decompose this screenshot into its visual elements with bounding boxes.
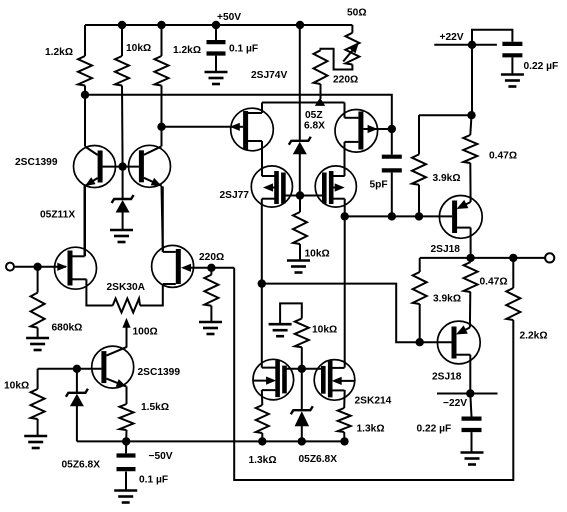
- wire: U1a source down: [261, 141, 263, 176]
- label 50&#937; (trimmer): [347, 8, 367, 19]
- junction on +50V rail at zener column: [296, 21, 304, 29]
- wire: Q4b source column down: [344, 199, 346, 368]
- junction drive node (left): [258, 279, 266, 287]
- junction -50V / 1.3k right: [340, 437, 348, 445]
- wire: 3.9k upper bottom lead: [418, 185, 420, 217]
- wire: 10k ground lead: [37, 419, 39, 435]
- label 0.1&#181;F (C1): [229, 44, 258, 55]
- trimmer wiper arrow: [343, 43, 359, 62]
- label -22V: [443, 398, 467, 409]
- resistor 0.47 ohm (upper): [463, 135, 477, 163]
- svg-text:0.1 µF: 0.1 µF: [139, 475, 168, 486]
- junction -50V / zener D4: [298, 437, 306, 445]
- wire: C4 ground lead: [471, 432, 473, 451]
- wire: 0.47 lower top lead: [470, 258, 472, 262]
- MOSFET Q4a 2SJ77 (left): [251, 166, 292, 207]
- wire: 0.47 lower to Q8 emitter: [469, 292, 471, 328]
- wire: bases to zener D1: [122, 167, 124, 199]
- svg-text:0.22 µF: 0.22 µF: [417, 424, 452, 435]
- resistor 3.9k (upper): [412, 154, 426, 184]
- junction 10k / zener / Q5 base: [73, 365, 81, 373]
- MOSFET Q4b 2SJ77 (right): [315, 166, 356, 207]
- wire: Q4a source column down: [261, 199, 263, 368]
- svg-text:3.9kΩ: 3.9kΩ: [433, 294, 461, 305]
- wire: 2SK214 gate bus: [286, 368, 322, 370]
- wire: 220 ohm to ground: [210, 306, 212, 321]
- gate arrow U1a (P-ch, points out): [230, 123, 243, 131]
- svg-text:2SJ74V: 2SJ74V: [251, 70, 287, 81]
- label 2SJ74V: [251, 70, 287, 81]
- gate arrow U1b (P-ch, points out): [363, 125, 377, 133]
- junction 2SK214 gates: [298, 365, 306, 373]
- wire: Q6a source lead down: [261, 390, 264, 405]
- wire: 10k top lead: [37, 369, 39, 389]
- label 6.8X (D2) line2: [304, 121, 325, 132]
- gate arrow Q3a (N-ch, points in): [57, 263, 67, 271]
- capacitor C4 0.22uF (lower): [462, 419, 482, 430]
- ground below 10k lower-left: [24, 436, 47, 448]
- label 05Z6.8X (D3): [62, 460, 101, 471]
- wire: cascode rail (y=95): [85, 95, 392, 129]
- tap arrow into 100 ohm: [122, 318, 130, 347]
- svg-text:1.2kΩ: 1.2kΩ: [45, 47, 73, 58]
- wire: 3.9k lower bottom lead: [419, 304, 421, 342]
- junction bases / R2 column: [118, 162, 126, 170]
- wire: Q3a source lead: [86, 279, 112, 305]
- trimmer VR1 50 ohm: [345, 33, 359, 65]
- label 680k&#937;: [52, 323, 83, 334]
- resistor 0.47 ohm (lower): [464, 262, 478, 292]
- wire: Q2 emitter column: [162, 186, 163, 252]
- label 05Z11X: [40, 210, 75, 221]
- MOSFET Q6b 2SK214 (right): [314, 360, 355, 401]
- wire: Q7 collector to output line: [470, 228, 472, 258]
- label 0.47&#937; (upper): [489, 151, 517, 162]
- wire: trimmer top lead: [351, 25, 353, 33]
- resistor 3.9k (lower): [413, 272, 427, 304]
- resistor 100 ohm (source degeneration): [113, 299, 140, 313]
- wire: 1.3k right bottom: [343, 432, 345, 441]
- wire: 220 ohm bottom lead: [320, 84, 322, 99]
- wire: R1 top lead: [84, 25, 86, 56]
- svg-text:+50V: +50V: [217, 12, 241, 23]
- label 05Z (D2) line1: [305, 110, 323, 121]
- svg-text:220Ω: 220Ω: [199, 252, 224, 263]
- svg-text:2SJ77: 2SJ77: [220, 190, 250, 201]
- wire: 3.9k upper top link: [419, 114, 472, 116]
- label 0.22&#181;F (C3): [524, 61, 559, 72]
- svg-text:2SC1399: 2SC1399: [15, 157, 58, 168]
- label 2SK30A: [107, 282, 146, 293]
- wire: Q2 collector column: [161, 127, 163, 147]
- wire: input lead: [14, 266, 66, 268]
- transistor Q2 2SC1399 (right): [129, 145, 171, 187]
- resistor 220 ohm (feedback shunt): [204, 275, 218, 306]
- wire: lower drive line: [262, 284, 452, 343]
- junction on +50V rail at 10k R2: [118, 21, 126, 29]
- svg-text:05Z6.8X: 05Z6.8X: [299, 454, 338, 465]
- wire: R1 bottom lead: [84, 86, 86, 95]
- ground below 220 ohm: [199, 322, 222, 334]
- label 10k&#937; (2SK214 bias): [312, 325, 337, 336]
- wire: Q8 collector to -22V: [469, 355, 471, 394]
- ground below D1: [110, 230, 133, 242]
- label 2SC1399 (Q5): [138, 367, 181, 378]
- svg-text:1.3kΩ: 1.3kΩ: [249, 455, 277, 466]
- svg-text:2SK30A: 2SK30A: [107, 282, 146, 293]
- svg-text:2.2kΩ: 2.2kΩ: [520, 331, 548, 342]
- label 1.2k&#937; (R3): [173, 45, 201, 56]
- junction rail2 / R1 / Q1 collector: [81, 91, 89, 99]
- label 10k&#937; (lower-left): [4, 381, 29, 392]
- wire: -50V line: [77, 440, 345, 442]
- wire: R3 top lead: [161, 25, 163, 56]
- label 0.47&#937; (lower): [480, 277, 508, 288]
- wire: C2 ground lead: [125, 472, 127, 490]
- junction on +50V rail at C1: [212, 21, 220, 29]
- resistor 680k: [31, 293, 45, 328]
- wire: trimmer bottom jog to 220 ohm: [321, 49, 353, 70]
- junction 5pF / drive line: [388, 212, 396, 220]
- wire: 5pF top lead: [391, 129, 393, 155]
- capacitor 5pF: [382, 157, 402, 171]
- label 1.3k&#937; (left): [249, 455, 277, 466]
- svg-text:1.3kΩ: 1.3kΩ: [357, 424, 385, 435]
- junction rail2 drop / U1b gate / 5pF: [388, 125, 396, 133]
- svg-text:2SC1399: 2SC1399: [138, 367, 181, 378]
- wire: R3 bottom column: [161, 86, 163, 127]
- junction input / 680k: [33, 263, 41, 271]
- wire: Q6b source lead down: [343, 390, 346, 408]
- svg-text:10kΩ: 10kΩ: [312, 325, 337, 336]
- wire: zener D2 anode to gate bus: [299, 153, 301, 195]
- svg-text:+22V: +22V: [440, 32, 464, 43]
- wire: R2 bottom column to BJT bases: [121, 86, 124, 167]
- ground below C3: [501, 75, 524, 87]
- label 3.9k&#937; (upper): [433, 173, 461, 184]
- resistor 1.3k (left): [256, 405, 269, 433]
- wire: Q5 base line: [77, 368, 102, 370]
- wire: C4 top lead: [470, 394, 471, 417]
- wire: Q1 collector column: [84, 95, 86, 147]
- svg-text:6.8X: 6.8X: [304, 121, 325, 132]
- label 1.3k&#937; (right): [357, 424, 385, 435]
- junction R3 column / U1a gate: [157, 123, 165, 131]
- svg-text:50Ω: 50Ω: [347, 8, 367, 19]
- wire: Q5 collector column to tap arrow: [126, 340, 128, 348]
- wire: 680k top lead: [37, 267, 39, 293]
- wire: C1 top lead: [215, 25, 217, 40]
- wire: base tie line: [103, 166, 139, 168]
- label 220&#937; (feedback): [199, 252, 224, 263]
- ground below 10k bias: [287, 261, 310, 273]
- wire: 680k ground lead: [37, 328, 39, 337]
- wire: Q3b drain column up to Q2 emitter: [162, 187, 164, 252]
- wire: D1 anode to ground: [122, 212, 124, 230]
- wire: gates to 10k bias: [301, 347, 303, 369]
- wire: Q1 emitter column: [84, 186, 86, 256]
- transistor Q7 2SJ18 (upper): [439, 196, 482, 239]
- ground below C2: [114, 491, 137, 503]
- label 2SJ18 (Q8): [432, 372, 462, 383]
- svg-text:−50V: −50V: [149, 451, 173, 462]
- wire: zener D3 top lead: [76, 369, 78, 393]
- label 10k&#937; (R2): [126, 43, 151, 54]
- label 0.1&#181;F (C2): [139, 475, 168, 486]
- label 2SK214: [355, 396, 392, 407]
- junction -22V / Q8 / C4: [466, 389, 474, 397]
- junction 3.9k / drive line: [415, 212, 423, 220]
- capacitor C1 0.1uF: [207, 42, 226, 53]
- wire: 10k bias to ground jog: [280, 303, 302, 323]
- wire: U1b drain to fold line: [344, 103, 346, 118]
- resistor 10k (2SK214 bias): [295, 319, 309, 348]
- wire: Q5 emitter to 1.5k: [126, 387, 128, 405]
- zener D3 05Z6.8X (left): [66, 389, 88, 407]
- ground below 680k: [26, 338, 49, 350]
- wire: zener column from +50V rail: [299, 25, 301, 140]
- wire: -22V rail: [437, 393, 498, 395]
- svg-text:05Z11X: 05Z11X: [40, 210, 75, 221]
- svg-text:3.9kΩ: 3.9kΩ: [433, 173, 461, 184]
- svg-text:05Z: 05Z: [305, 110, 323, 121]
- junction output / Q7 / 0.47 lower: [466, 254, 474, 262]
- wire: 10k to ground: [299, 244, 301, 260]
- junction drive node (right): [341, 212, 349, 220]
- wire: 3.9k upper top lead: [418, 115, 420, 154]
- transistor Q1 2SC1399 (left, mirrored): [74, 146, 116, 188]
- JFET Q3b 2SK30A (right): [152, 245, 194, 287]
- wire: D3 anode to -50V line: [76, 405, 78, 441]
- junction -50V / 1.3k left: [258, 437, 266, 445]
- svg-text:1.5kΩ: 1.5kΩ: [141, 402, 169, 413]
- ground below C4: [461, 453, 484, 465]
- capacitor C2 0.1uF (lower): [117, 456, 136, 470]
- capacitor C3 0.22uF (upper): [502, 44, 522, 55]
- label 5pF: [370, 180, 388, 191]
- svg-text:100Ω: 100Ω: [133, 327, 158, 338]
- label 1.2k&#937; (R1): [45, 47, 73, 58]
- wire: 1.5k bottom lead: [125, 430, 127, 441]
- wire: +22V column down: [471, 45, 473, 115]
- wire: C2 top lead: [125, 441, 127, 453]
- wire: feedback loop: [234, 268, 513, 480]
- wire: 1.3k left bottom: [261, 433, 263, 441]
- JFET U1b 2SJ74V (right): [335, 110, 378, 153]
- label 1.5k&#937;: [141, 402, 169, 413]
- label 100&#937;: [133, 327, 158, 338]
- output terminal: [545, 253, 554, 262]
- resistor 220 ohm (upper): [314, 50, 328, 84]
- label -50V: [149, 451, 173, 462]
- wire: gates to zener D4: [301, 369, 303, 410]
- zener D4 05Z6.8X (center): [291, 406, 313, 426]
- wire: +50V rail: [85, 24, 352, 26]
- svg-text:220Ω: 220Ω: [333, 75, 358, 86]
- MOSFET Q6a 2SK214 (left): [253, 359, 294, 400]
- svg-text:10kΩ: 10kΩ: [4, 381, 29, 392]
- label 2SC1399 (pair): [15, 157, 58, 168]
- resistor 10k (bias lower-left): [31, 389, 45, 419]
- svg-text:2SJ18: 2SJ18: [432, 372, 462, 383]
- resistor 1.3k (right): [338, 408, 351, 432]
- junction 3.9k upper / 0.47 upper: [467, 111, 475, 119]
- zener D1 05Z11X: [112, 195, 134, 213]
- input terminal: [6, 263, 14, 271]
- wire: U1b gate line to rail2 drop: [363, 128, 391, 130]
- resistor R3 1.2k: [155, 56, 169, 86]
- wire: upper drive line (y=216.5): [345, 215, 452, 217]
- resistor 1.5k: [120, 404, 134, 430]
- resistor R2 10k: [115, 56, 129, 86]
- junction on +50V rail at 1.2k R3: [157, 21, 165, 29]
- resistor 2.2k: [506, 288, 520, 320]
- label 0.22&#181;F (C4): [417, 424, 452, 435]
- wire: Q3a drain column up to Q1 emitter: [84, 185, 86, 256]
- wire: Q3b gate line: [189, 267, 235, 269]
- svg-text:2SJ18: 2SJ18: [431, 244, 461, 255]
- gate arrow Q3b (N-ch, points in): [181, 264, 191, 272]
- svg-text:0.1 µF: 0.1 µF: [229, 44, 258, 55]
- wire: 2.2k top lead: [512, 258, 514, 288]
- junction 3.9k lower / base line: [416, 338, 424, 346]
- wire: 0.47 upper top lead: [470, 115, 471, 135]
- wire: fold line (y=102.5): [262, 102, 345, 104]
- label 10k&#937; (2SJ77 bias): [305, 249, 330, 260]
- transistor Q8 2SJ18 (lower): [437, 321, 480, 364]
- wire: D4 anode to -50V: [301, 426, 303, 442]
- wire: +22V rail: [434, 44, 497, 46]
- svg-text:5pF: 5pF: [370, 180, 388, 191]
- resistor R1 1.2k: [78, 56, 92, 86]
- wire: C3 ground lead: [511, 57, 513, 73]
- wire: U1a gate line to R3 column: [162, 126, 235, 128]
- svg-text:10kΩ: 10kΩ: [126, 43, 151, 54]
- ground for 2SK214 bias: [269, 324, 292, 336]
- JFET U1a 2SJ74V (left): [231, 108, 274, 151]
- junction -50V / 1.5k / C2: [122, 437, 130, 445]
- junction output / 2.2k: [509, 254, 517, 262]
- svg-text:10kΩ: 10kΩ: [305, 249, 330, 260]
- svg-text:0.22 µF: 0.22 µF: [524, 61, 559, 72]
- label 05Z6.8X (D4): [299, 454, 338, 465]
- svg-text:680kΩ: 680kΩ: [52, 323, 83, 334]
- wire: gate bus to 10k: [299, 196, 301, 213]
- wire: +22V to C3: [472, 30, 512, 45]
- ground below C1: [205, 72, 228, 84]
- wire: 5pF bottom lead: [391, 173, 393, 217]
- wire: U1b source down: [344, 142, 346, 176]
- wire: R2 top lead: [121, 25, 123, 56]
- svg-text:05Z6.8X: 05Z6.8X: [62, 460, 101, 471]
- JFET Q3a 2SK30A (left): [55, 247, 97, 289]
- wire: output line: [420, 257, 546, 259]
- label 220&#937; (upper): [333, 75, 358, 86]
- wire: U1a drain to fold line: [261, 103, 263, 114]
- junction 2SJ77 gates: [296, 191, 304, 199]
- svg-text:−22V: −22V: [443, 398, 467, 409]
- wire: Q3b source lead: [140, 284, 163, 306]
- label 2SJ18 (Q7): [431, 244, 461, 255]
- label 3.9k&#937; (lower): [433, 294, 461, 305]
- junction 220 ohm tap / gate line: [207, 264, 215, 272]
- svg-text:0.47Ω: 0.47Ω: [480, 277, 508, 288]
- wire: 3.9k lower top lead: [419, 258, 421, 272]
- label 2SJ77: [220, 190, 250, 201]
- wire: 220 ohm tap top lead: [210, 268, 212, 275]
- svg-text:0.47Ω: 0.47Ω: [489, 151, 517, 162]
- svg-text:2SK214: 2SK214: [355, 396, 392, 407]
- resistor 10k (2SJ77 bias): [293, 212, 307, 244]
- label 2.2k&#937;: [520, 331, 548, 342]
- transistor Q5 2SC1399 (current source): [92, 346, 134, 388]
- wire: C1 ground lead: [215, 56, 217, 71]
- svg-text:1.2kΩ: 1.2kΩ: [173, 45, 201, 56]
- wire: base node to 10k: [38, 368, 77, 370]
- label +22V: [440, 32, 464, 43]
- label +50V: [217, 12, 241, 23]
- junction +22V rail: [468, 41, 476, 49]
- junction arrow onto fold line: [315, 98, 325, 106]
- zener D2 05Z6.8X (mid): [289, 137, 311, 155]
- wire: 2SJ77 gate bus: [284, 195, 325, 197]
- wire: 0.47 upper to Q7 emitter: [469, 163, 471, 202]
